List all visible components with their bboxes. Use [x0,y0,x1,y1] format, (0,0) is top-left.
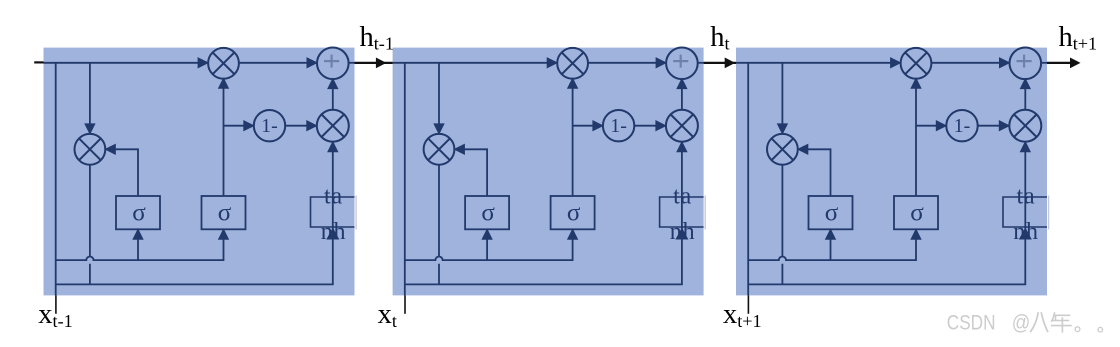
arrowhead into reset gate from sigma1 cell1 [104,144,116,155]
svg-text:ta: ta [673,184,692,210]
sigma box 2 cell3 [894,196,938,229]
wire multiplyB to add cell2 [681,88,683,110]
x input tick cell3 [747,295,749,313]
svg-text:σ: σ [567,200,581,227]
arrowhead into multiply gate A bottom cell2 [567,77,578,89]
multiply gate B cell3 [1009,110,1041,142]
arrowhead into multiply gate A bottom cell3 [910,77,921,89]
sigma box 1 cell2 [465,196,509,229]
x input tick cell2 [404,295,406,313]
wire multiplyB to add cell3 [1024,88,1026,110]
black arrowhead h(t+1) [1070,58,1081,69]
wire upper bus cell3 [748,238,916,260]
multiply gate A cell3 [901,48,932,79]
wire multiplyB to add cell1 [332,88,334,110]
wire through tanh box cell2 [681,197,683,236]
wire drop to reset gate cell3 [781,63,783,125]
wire sigma1 to reset gate elbow cell1 [114,149,138,196]
wire sigma2 riser cell3 [915,87,917,196]
arrowhead into multiply gate A cell2 [547,57,559,68]
svg-text:ht-1: ht-1 [360,22,394,53]
multiply gate B cell2 [666,110,698,142]
arrowhead into multiply gate B cell2 [655,120,667,131]
svg-text:σ: σ [910,200,924,227]
wire sigma1 to reset gate elbow cell2 [463,149,487,196]
arrowhead into add gate cell2 [656,57,668,68]
one-minus node cell1 [254,110,285,141]
svg-text:σ: σ [481,200,495,227]
arrowhead into multiply gate B cell1 [306,120,318,131]
wire x-input vertical cell1 [55,63,57,296]
tanh box cell1 [311,197,355,227]
wire branch to one-minus cell2 [573,125,593,127]
arrowhead into sigma1 bottom cell2 [481,228,492,240]
one-minus node cell3 [946,110,977,141]
svg-text:xt+1: xt+1 [723,299,762,331]
sigma box 1 cell1 [116,196,160,229]
wire h-line cell2 [393,62,548,64]
black arrowhead h(t-1) [376,58,387,69]
wire upper bus cell1 [56,238,224,260]
svg-text:CSDN: CSDN [947,311,996,335]
arrowhead into add gate bottom cell1 [327,78,338,90]
tanh box cell3 [1003,197,1047,227]
arrowhead into add gate cell3 [999,57,1011,68]
wire through tanh box cell1 [332,197,334,236]
cell 2 background [393,48,704,296]
arrowhead into sigma2 bottom cell2 [567,228,578,240]
wire add gate to cell edge cell1 [349,62,355,64]
arrowhead into multiply gate A bottom cell1 [218,77,229,89]
arrowhead into sigma2 bottom cell1 [218,228,229,240]
arrowhead into one-minus cell1 [243,120,255,131]
arrowhead into sigma1 bottom cell3 [825,228,836,240]
svg-text:ht: ht [710,22,729,53]
svg-text:1-: 1- [610,115,627,137]
wire x-input vertical cell2 [404,63,406,296]
wire reset gate down to lower bus with hop cell1 [89,165,91,285]
wire h-line cell3 [736,62,891,64]
arrowhead into add gate cell1 [307,57,319,68]
watermark glyph nian [1051,312,1072,332]
svg-text:ta: ta [1017,184,1036,210]
wire lower bus cell3 [748,235,1025,284]
arrowhead into reset gate cell2 [433,123,444,134]
wire h(t) connector [704,62,736,64]
watermark circle 1 [1075,327,1080,332]
wire reset gate down to lower bus with hop cell2 [438,165,440,285]
arrowhead into reset gate from sigma1 cell3 [797,144,809,155]
arrowhead into multiply gate A cell1 [198,57,210,68]
cell 3 background [736,48,1047,296]
wire bus to sigma1 cell1 [137,238,139,260]
arrowhead into multiply gate A cell3 [890,57,902,68]
arrowhead into multiply gate B bottom cell3 [1020,141,1031,153]
multiply gate A cell2 [557,48,588,79]
arrowhead into tanh bottom cell3 [1019,228,1032,240]
wire h(t+1) output [1047,62,1071,64]
sigma box 2 cell2 [551,196,595,229]
wire one-minus to multiplyB cell1 [285,125,307,127]
black arrowhead h(t) [725,58,736,69]
svg-text:σ: σ [218,200,232,227]
wire bus to sigma1 cell2 [486,238,488,260]
sigma box 2 cell1 [202,196,246,229]
wire sigma2 riser cell1 [223,87,225,196]
wire branch to one-minus cell3 [916,125,936,127]
arrowhead into multiply gate B bottom cell2 [676,141,687,153]
wire one-minus to multiplyB cell2 [634,125,656,127]
svg-text:σ: σ [132,200,146,227]
wire tanh to multiplyB cell1 [332,151,334,197]
svg-text:ta: ta [324,184,343,210]
svg-text:σ: σ [825,200,839,227]
multiply gate A cell1 [208,48,239,79]
svg-text:1-: 1- [954,115,971,137]
wire h-line cell1 [44,62,199,64]
arrowhead into one-minus cell2 [592,120,604,131]
watermark glyph ba [1030,312,1048,332]
svg-text:@: @ [1012,311,1031,335]
arrowhead into add gate bottom cell3 [1020,78,1031,90]
multiply gate R (reset) cell3 [767,134,798,165]
wire drop to reset gate cell2 [438,63,440,125]
arrowhead into sigma1 bottom cell1 [132,228,143,240]
wire upper bus cell2 [405,238,573,260]
svg-text:xt: xt [378,299,397,331]
one-minus node cell2 [603,110,634,141]
wire one-minus to multiplyB cell3 [978,125,1000,127]
wire add gate to cell edge cell2 [698,62,704,64]
arrowhead into one-minus cell3 [936,120,948,131]
wire x-input vertical cell3 [747,63,749,296]
sigma box 1 cell3 [809,196,853,229]
wire tanh to multiplyB cell3 [1024,151,1026,197]
tanh box cell2 [660,197,704,227]
add gate cell3 [1010,48,1042,80]
wire bus to sigma1 cell3 [830,238,832,260]
cell 1 background [44,48,355,296]
wire branch to one-minus cell1 [224,125,244,127]
svg-text:1-: 1- [261,115,278,137]
wire add gate to cell edge cell3 [1041,62,1047,64]
wire sigma1 to reset gate elbow cell3 [807,149,831,196]
arrowhead into tanh bottom cell1 [326,228,339,240]
svg-text:ht+1: ht+1 [1059,22,1098,53]
wire reset gate down to lower bus with hop cell3 [781,165,783,285]
arrowhead into multiply gate B bottom cell1 [327,141,338,153]
multiply gate R (reset) cell1 [75,134,106,165]
wire tanh to multiplyB cell2 [681,151,683,197]
wire multiplyA to add cell1 [239,62,307,64]
wire multiplyA to add cell2 [588,62,656,64]
arrowhead into tanh bottom cell2 [675,228,688,240]
input stub wire [34,61,43,63]
arrowhead into add gate bottom cell2 [676,78,687,90]
wire through tanh box cell3 [1024,197,1026,236]
arrowhead into sigma2 bottom cell3 [910,228,921,240]
tanh box gray right edge cell1 [355,196,357,230]
wire lower bus cell1 [56,235,333,284]
tanh box gray right edge cell2 [704,196,706,230]
wire sigma2 riser cell2 [572,87,574,196]
arrowhead into reset gate cell3 [777,123,788,134]
arrowhead into reset gate from sigma1 cell2 [453,144,465,155]
add gate cell2 [666,48,698,80]
x input tick cell1 [55,295,57,313]
wire h(t-1) connector [355,62,393,64]
wire lower bus cell2 [405,235,682,284]
multiply gate B cell1 [317,110,349,142]
add gate cell1 [317,48,349,80]
wire drop to reset gate cell1 [89,63,91,125]
arrowhead into multiply gate B cell3 [999,120,1011,131]
tanh box gray right edge cell3 [1048,196,1050,230]
watermark circle 2 [1098,327,1103,332]
wire multiplyA to add cell3 [931,62,999,64]
arrowhead into reset gate cell1 [84,123,95,134]
multiply gate R (reset) cell2 [424,134,455,165]
